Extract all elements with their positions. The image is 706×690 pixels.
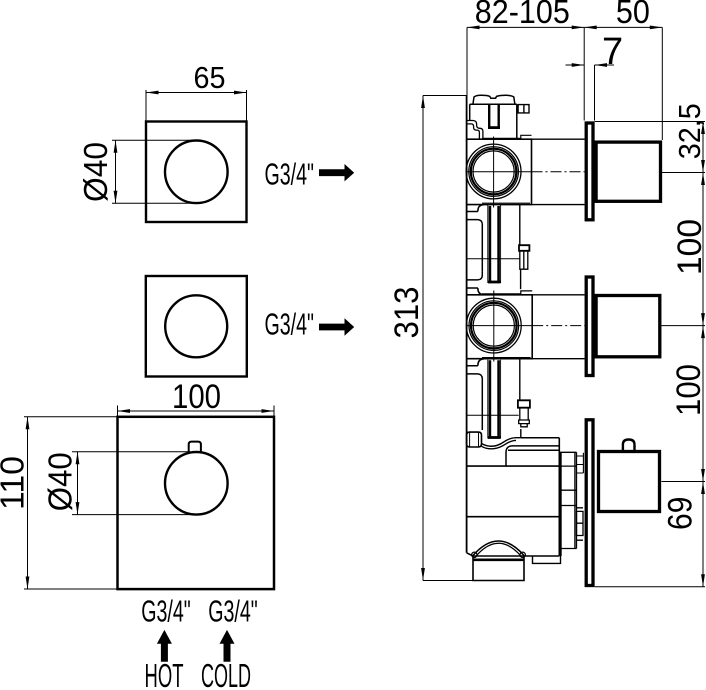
dim 69 line [702,482,704,587]
svg-text:HOT: HOT [145,657,184,690]
connector small blocks [577,508,584,540]
dim 32.5 ext top [595,121,705,123]
knob circle middle plate [165,295,227,357]
dim d40 top ext lines [112,140,202,203]
cartridge stem screw [489,104,499,127]
outlet arch inner [477,543,521,555]
top valve crosshair [468,137,532,208]
escutcheon plate top [586,123,593,220]
connecting pipe 2 [490,360,499,436]
knob top [596,142,660,201]
hot arrow up [157,630,172,662]
dim 7 ext line [594,65,596,121]
front plate square 65x65 (top) [146,122,247,223]
dim line 82-105 [467,26,584,28]
G3/4 arrow 2 [319,318,354,335]
G3/4 arrow 1 [319,164,354,181]
dim 313 line [422,96,424,581]
middle valve block top step [482,291,532,358]
dim 110 ext lines [24,417,118,589]
dim line 50 [584,26,662,28]
knob circle bottom plate [165,452,228,515]
outlet pipe [473,556,524,581]
svg-text:G3/4": G3/4" [264,157,314,192]
bolt fitting 2 [518,400,530,407]
dim 100 ext lines [118,406,275,417]
thermostat swoosh curve [482,438,521,449]
svg-text:G3/4": G3/4" [264,307,314,342]
bolt2 to body link [520,429,522,438]
top valve centerline to knob [532,171,585,173]
cold arrow up [220,630,235,662]
thermostat bottom edge + slant [467,553,560,556]
svg-text:110: 110 [0,456,31,510]
upper mounting bracket top valve [467,121,483,140]
top right tab [518,105,529,113]
top valve stems to plate [532,139,585,204]
knob circle top plate [165,141,228,204]
dim 100 line [118,410,275,412]
svg-text:100: 100 [671,219,706,275]
upper mounting flange middle valve [467,271,484,294]
svg-text:50: 50 [616,0,650,30]
dim 50 right ext line [661,27,663,140]
knob bottom [599,452,660,512]
dim 100a line [702,173,704,326]
svg-text:Ø40: Ø40 [77,142,114,202]
dim 313 ext top [423,95,468,97]
dim 110 arrows [26,417,30,589]
centerline ext knob2 [662,325,706,327]
dim d40 bottom ext lines [72,452,202,515]
thermostat clip [467,432,482,447]
svg-text:Ø40: Ø40 [42,452,79,511]
dim 32.5 line [702,122,704,173]
thermostat upper block [506,438,559,466]
dim 100b arrows [701,326,705,482]
dim 82-105 arrows [467,26,584,30]
dim d40 top arrows [114,140,118,203]
outlet pipe thick collar [473,558,524,561]
body back edge [466,96,468,553]
body right edge between valves 1 [519,205,522,290]
connecting pipe 1 [490,206,499,281]
connecting pipe 1 walls [488,205,501,283]
knob bottom tab [623,440,635,451]
mid joint line 1 [467,258,520,260]
dim d40 top line [115,140,117,203]
outlet arch outer [473,541,524,556]
bolt fitting 1 [519,245,529,251]
dim d40 bottom arrows [76,452,80,515]
top valve block [467,139,532,204]
svg-text:69: 69 [662,497,700,530]
dim d40 bottom line [77,452,79,515]
body foot step [533,556,561,563]
front plate square middle [146,276,247,377]
connecting pipe 2 walls [488,360,501,439]
dim 82-105 ext line left [466,27,468,95]
middle valve crosshair [468,291,533,362]
connector top cells [577,453,584,473]
right connector column [559,452,576,548]
middle valve block [467,295,533,359]
dim 313 ext bottom [423,580,473,582]
svg-text:82-105: 82-105 [475,0,570,30]
svg-text:100: 100 [172,378,221,416]
dim 69 arrows [701,482,705,587]
svg-text:100: 100 [670,364,706,416]
centerline ext knob1 [662,172,705,174]
lower mounting flange middle valve [467,359,484,430]
dim 313 arrows [421,96,425,581]
dim 69 ext bottom [595,586,705,588]
knob middle [596,296,660,357]
cartridge cap (top valve) [473,95,515,104]
svg-text:313: 313 [388,287,426,339]
dim 32.5 arrows [701,122,705,173]
svg-text:G3/4": G3/4" [208,593,258,628]
arch foot circles [472,552,477,557]
top valve circles [466,144,521,199]
dim 100b line [702,326,704,482]
dim 50 arrows [584,26,662,30]
middle valve stems to plate [532,295,584,359]
svg-text:G3/4": G3/4" [141,593,191,628]
dim 100 arrows [118,409,275,413]
svg-text:COLD: COLD [201,657,251,690]
middle valve centerline to knob [532,325,584,327]
body right edge above bolt 2 [519,359,521,401]
dim 65 arrows [146,91,247,95]
dim 100a arrows [701,173,705,326]
centerline ext knob3 [662,481,706,483]
svg-text:32,5: 32,5 [672,103,706,159]
middle valve circles [466,298,521,353]
escutcheon plate bottom [586,420,593,586]
lower mounting flange top valve [467,205,484,272]
dim 110 line [27,417,29,589]
top valve block top step [482,135,532,203]
front plate square 100x110 (bottom) [118,417,275,589]
thermostat main block [467,438,561,556]
dim 7 arrow lines [566,64,615,66]
dim 65 line [146,92,247,94]
cartridge neck [470,104,517,139]
dim 65 extension lines [146,90,247,122]
svg-text:65: 65 [194,60,226,95]
knob tab bottom plate [189,442,201,453]
dim 7 arrows [572,63,607,67]
dim 82-105 / 50 boundary ext line [583,27,585,120]
escutcheon plate middle [586,277,593,376]
mid joint line 2 [467,414,519,416]
svg-text:7: 7 [602,31,623,73]
